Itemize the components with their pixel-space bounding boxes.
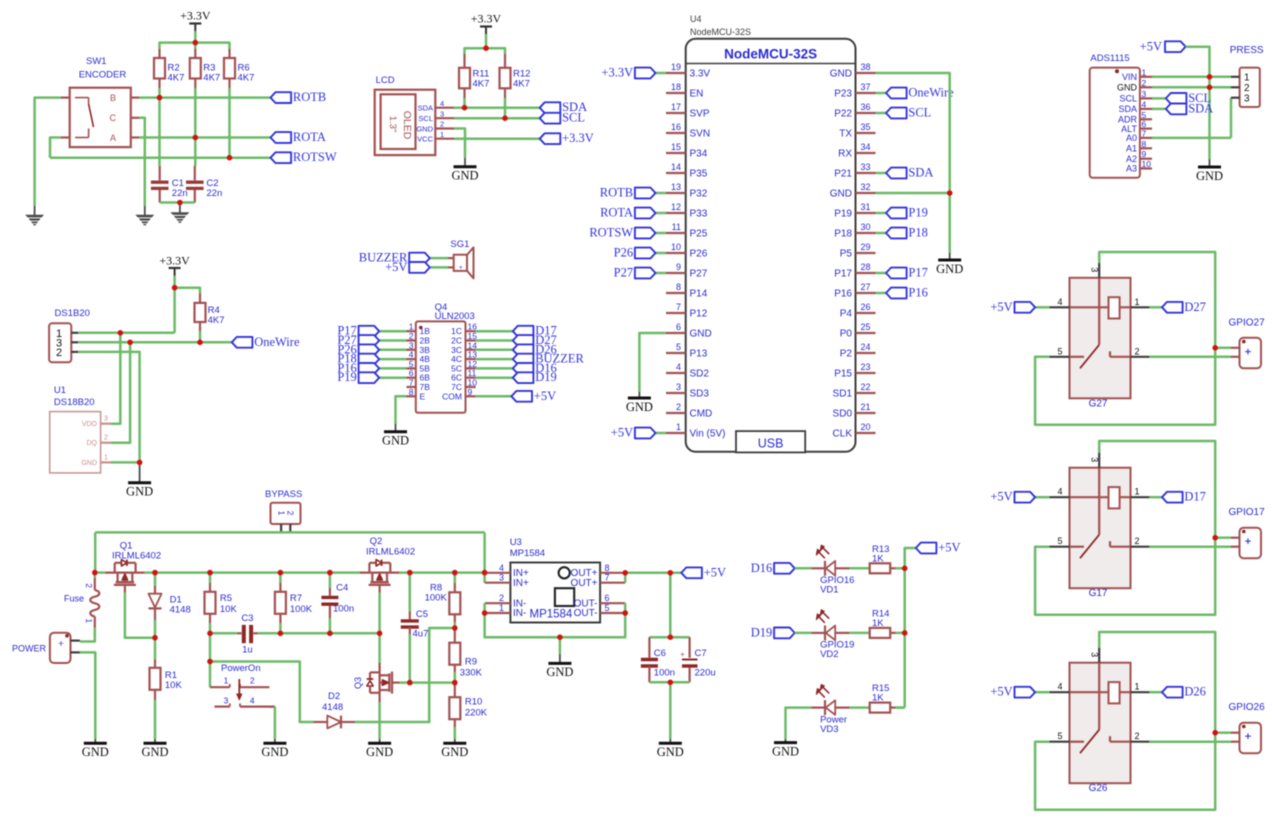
- svg-text:24: 24: [861, 342, 871, 352]
- wire G27 sense tap: [1215, 347, 1231, 350]
- relay G27 pin 1: [1131, 306, 1150, 308]
- U4 left pin 4 SD2: [666, 372, 686, 374]
- svg-text:+5V: +5V: [938, 541, 960, 555]
- svg-text:+5V: +5V: [990, 490, 1012, 504]
- svg-text:ROTSW: ROTSW: [589, 226, 633, 240]
- svg-text:A2: A2: [1126, 154, 1137, 164]
- U1 pin 1 GND: [101, 461, 111, 463]
- svg-text:GND: GND: [772, 744, 799, 758]
- U4 left pin 14 P35: [666, 172, 686, 174]
- flag +5V (G27): [1035, 306, 1049, 309]
- svg-text:37: 37: [861, 82, 871, 92]
- svg-text:U3: U3: [510, 537, 522, 548]
- U4 left pin 16 SVN: [666, 132, 686, 134]
- wire D1 to R1: [154, 620, 157, 638]
- junction: [278, 570, 284, 576]
- svg-text:VD3: VD3: [820, 724, 838, 735]
- ULN2003 pin 15 2C: [466, 339, 476, 341]
- ground (ULN2003): [395, 424, 397, 431]
- U4 left pin 8 P14: [666, 292, 686, 294]
- resistor R14 1K: [850, 632, 870, 635]
- resistor R6: [228, 49, 230, 58]
- wire fuse to main rail: [94, 573, 97, 578]
- flag D19 (ULN out): [476, 376, 513, 379]
- svg-text:C7: C7: [695, 648, 707, 659]
- svg-text:SDA: SDA: [1118, 104, 1137, 114]
- svg-text:DQ: DQ: [87, 440, 98, 447]
- svg-text:R9: R9: [465, 657, 477, 668]
- svg-text:7: 7: [676, 302, 681, 312]
- junction: [327, 570, 333, 576]
- ADS1115 pin 1 VIN: [1140, 76, 1152, 78]
- U4 right pin 27 P16: [856, 292, 876, 294]
- junction: [902, 630, 908, 636]
- svg-text:330K: 330K: [460, 668, 483, 679]
- svg-text:SW1: SW1: [86, 56, 107, 67]
- svg-text:MP1584: MP1584: [530, 609, 573, 621]
- svg-text:4: 4: [1057, 487, 1062, 497]
- flag SCL (ADS): [1152, 97, 1166, 100]
- ADS1115 pin 3 SCL: [1140, 97, 1152, 99]
- svg-text:U1: U1: [54, 385, 66, 396]
- junction: [452, 570, 458, 576]
- ADS1115 pin 7 A0: [1140, 137, 1152, 139]
- U4 right pin 22 SD1: [856, 392, 876, 394]
- LED VD2 GPIO19: [812, 632, 826, 634]
- svg-text:GND: GND: [936, 262, 963, 276]
- svg-text:4: 4: [499, 563, 504, 573]
- flag +3.3V (U4 pin 19): [656, 72, 667, 75]
- diode D1 4148: [154, 573, 157, 586]
- U4 right pin 37 P23: [856, 92, 876, 94]
- U4 left pin 12 P33: [666, 212, 686, 214]
- flag D26: [1149, 691, 1162, 694]
- svg-text:+5V: +5V: [385, 260, 407, 274]
- svg-text:1: 1: [1134, 297, 1139, 307]
- svg-text:SD0: SD0: [833, 409, 853, 420]
- junction: [668, 634, 674, 640]
- svg-text:P4: P4: [840, 309, 853, 320]
- svg-text:DS18B20: DS18B20: [54, 397, 95, 408]
- ULN2003 pin 1 1B: [407, 330, 416, 332]
- svg-text:G26: G26: [1089, 783, 1108, 794]
- wire Q1 gate: [125, 593, 155, 638]
- svg-text:VDO: VDO: [82, 421, 98, 428]
- svg-text:GND: GND: [451, 169, 478, 183]
- resistor R15 1K: [850, 706, 870, 709]
- svg-text:11: 11: [672, 222, 681, 232]
- ULN2003 pin 13 4C: [466, 358, 476, 360]
- U4 right pin 21 SD0: [856, 412, 876, 414]
- junction: [172, 285, 178, 291]
- wire SDA net: [454, 106, 540, 109]
- ground earth (SW1 C): [144, 206, 146, 216]
- svg-text:RX: RX: [838, 149, 852, 160]
- svg-text:LCD: LCD: [376, 75, 395, 86]
- svg-text:P16: P16: [908, 286, 927, 300]
- svg-text:8: 8: [1142, 139, 1147, 149]
- ground (LCD): [464, 158, 466, 166]
- U4 left pin 10 P26: [666, 252, 686, 254]
- junction: [193, 40, 199, 46]
- svg-text:9: 9: [468, 387, 473, 397]
- flag ROTA: [271, 132, 292, 143]
- ground (PowerOn): [274, 739, 276, 743]
- svg-text:18: 18: [671, 82, 681, 92]
- svg-text:26: 26: [861, 302, 871, 312]
- svg-text:+: +: [459, 265, 463, 272]
- svg-text:3.3V: 3.3V: [690, 69, 711, 80]
- svg-text:+: +: [1245, 536, 1251, 548]
- svg-text:ROTA: ROTA: [293, 130, 326, 144]
- svg-text:21: 21: [861, 402, 871, 412]
- relay G17 pin 4: [1049, 496, 1069, 498]
- junction: [483, 45, 489, 51]
- junction: [407, 570, 413, 576]
- svg-text:P32: P32: [690, 189, 708, 200]
- U4 left pin 1 Vin (5V): [666, 432, 686, 434]
- flag +5V (SG1): [430, 266, 448, 269]
- flag D17 (ULN out): [476, 330, 513, 333]
- capacitor C5 4u7: [409, 573, 412, 612]
- svg-text:4: 4: [250, 695, 255, 705]
- svg-text:4: 4: [676, 362, 681, 372]
- junction: [462, 105, 468, 111]
- svg-text:9: 9: [676, 262, 681, 272]
- wire DQ column: [111, 342, 130, 442]
- svg-text:6: 6: [605, 593, 610, 603]
- wire LCD GND: [454, 129, 465, 159]
- wire VDO column: [111, 333, 120, 424]
- junction: [557, 634, 563, 640]
- wire R11/R12 top rail: [465, 48, 506, 54]
- wire U1 GND row: [111, 461, 140, 464]
- U4 left pin 5 P13: [666, 352, 686, 354]
- wire G26 loop: [1035, 632, 1215, 810]
- svg-text:5: 5: [1057, 536, 1062, 546]
- U3 pin 6 OUT-: [600, 602, 625, 604]
- junction: [137, 460, 143, 466]
- wire SW1 B-left to ground: [35, 98, 61, 206]
- flag D17: [1149, 496, 1162, 499]
- wire G17 loop: [1035, 441, 1215, 615]
- flag SCL (U4 pin 36): [876, 112, 887, 115]
- ground (Q3): [379, 739, 381, 743]
- ULN2003 pin 10 7C: [466, 386, 476, 388]
- flag BUZZER (SG1): [430, 257, 448, 260]
- svg-text:P34: P34: [690, 149, 708, 160]
- U4 right pin 33 P21: [856, 172, 876, 174]
- svg-text:34: 34: [861, 142, 871, 152]
- svg-text:ROTA: ROTA: [600, 206, 633, 220]
- wire R10 to ground: [454, 727, 457, 739]
- relay G26 pin 4: [1049, 691, 1069, 693]
- svg-text:P18: P18: [834, 229, 852, 240]
- svg-text:12: 12: [671, 202, 681, 212]
- svg-text:SVP: SVP: [690, 109, 710, 120]
- svg-text:GND: GND: [1196, 169, 1223, 183]
- USB connector box: [736, 431, 805, 452]
- svg-text:C: C: [110, 113, 117, 123]
- svg-text:31: 31: [861, 202, 871, 212]
- flag P27 (U4 pin 9): [656, 272, 667, 275]
- svg-text:P19: P19: [908, 206, 927, 220]
- wire A0 to PRESS3: [1152, 137, 1231, 140]
- wire Q3 gate row: [400, 681, 455, 684]
- ground (POWER): [94, 739, 96, 743]
- svg-text:38: 38: [861, 62, 871, 72]
- svg-text:+5V: +5V: [990, 300, 1012, 314]
- svg-text:A3: A3: [1126, 164, 1137, 174]
- svg-text:P12: P12: [690, 309, 708, 320]
- svg-text:+3.3V: +3.3V: [159, 253, 190, 267]
- svg-text:4148: 4148: [170, 605, 191, 616]
- svg-text:6: 6: [676, 322, 681, 332]
- net ROTA wire: [139, 136, 271, 139]
- flag SDA: [540, 102, 561, 113]
- svg-text:E: E: [420, 391, 426, 401]
- flag P17 (U4 pin 28): [876, 272, 887, 275]
- ADS1115 pin 10 A3: [1140, 167, 1152, 169]
- svg-text:+5V: +5V: [1140, 39, 1162, 53]
- svg-text:19: 19: [671, 62, 681, 72]
- svg-text:Vin (5V): Vin (5V): [690, 429, 726, 440]
- U1 pin 3 VDO: [101, 423, 111, 425]
- svg-text:OneWire: OneWire: [254, 335, 300, 349]
- svg-text:20: 20: [861, 422, 871, 432]
- ADS1115 pin 4 SDA: [1140, 108, 1152, 110]
- svg-text:4K7: 4K7: [168, 73, 185, 84]
- svg-text:P16: P16: [834, 289, 852, 300]
- U4 right pin 24 P2: [856, 352, 876, 354]
- svg-text:BYPASS: BYPASS: [265, 489, 302, 500]
- U4 right pin 25 P0: [856, 332, 876, 334]
- wire R3 column to C2: [194, 88, 197, 138]
- resistor R12: [504, 54, 506, 68]
- svg-text:4K7: 4K7: [513, 79, 530, 90]
- U4 right pin 36 P22: [856, 112, 876, 114]
- svg-text:GND: GND: [81, 460, 97, 467]
- ULN2003 pin 14 3C: [466, 349, 476, 351]
- ULN2003 pin 8 E: [407, 395, 416, 397]
- svg-text:29: 29: [861, 242, 871, 252]
- svg-text:IN+: IN+: [513, 578, 529, 589]
- U3 pin 2 IN-: [485, 602, 511, 604]
- svg-text:Fuse: Fuse: [64, 594, 84, 604]
- svg-text:27: 27: [861, 282, 871, 292]
- wire G27 pin2 to GPIO27: [1149, 356, 1231, 359]
- svg-text:SCL: SCL: [908, 106, 931, 120]
- flag P17 (ULN in): [379, 330, 406, 333]
- ADS1115 pin 6 ALT: [1140, 128, 1152, 130]
- ground (U1): [139, 462, 141, 482]
- svg-text:P26: P26: [690, 249, 708, 260]
- svg-text:TX: TX: [839, 129, 852, 140]
- svg-text:5: 5: [1057, 731, 1062, 741]
- svg-text:IN-: IN-: [513, 608, 526, 619]
- svg-text:1: 1: [276, 511, 286, 516]
- junction: [482, 570, 488, 576]
- svg-text:+5V: +5V: [990, 685, 1012, 699]
- U3 pin 3 IN+: [485, 582, 511, 584]
- ULN2003 pin 4 4B: [407, 358, 416, 360]
- svg-text:D2: D2: [328, 691, 340, 702]
- svg-text:1: 1: [84, 618, 94, 623]
- flag D26 (ULN out): [476, 349, 513, 352]
- svg-text:P2: P2: [840, 349, 853, 360]
- svg-text:4: 4: [1057, 297, 1062, 307]
- wire G27 loop: [1035, 252, 1215, 425]
- flag BUZZER (ULN out): [476, 358, 513, 361]
- flag +5V (G26): [1035, 691, 1049, 694]
- flag SCL: [540, 113, 561, 124]
- junction: [197, 340, 203, 346]
- svg-text:B: B: [110, 93, 116, 103]
- resistor R13 1K: [850, 567, 870, 570]
- ADS1115 pin 9 A2: [1140, 158, 1152, 160]
- svg-text:SD2: SD2: [690, 369, 710, 380]
- junction: [152, 570, 158, 576]
- flag ROTSW (U4 pin 11): [656, 232, 667, 235]
- svg-text:+: +: [58, 638, 64, 650]
- svg-text:EN: EN: [690, 89, 704, 100]
- U4 left pin 3 SD3: [666, 392, 686, 394]
- svg-text:P22: P22: [834, 109, 852, 120]
- svg-text:2: 2: [1134, 346, 1139, 356]
- svg-text:VIN: VIN: [1122, 72, 1137, 82]
- ULN2003 pin 6 6B: [407, 377, 416, 379]
- svg-text:P26: P26: [614, 246, 633, 260]
- ADS1115 pin 8 A1: [1140, 147, 1152, 149]
- svg-text:GND: GND: [416, 124, 433, 133]
- svg-text:DS1B20: DS1B20: [55, 308, 90, 319]
- svg-text:Q2: Q2: [370, 536, 383, 547]
- flag SDA (ADS): [1152, 108, 1166, 111]
- svg-text:OneWire: OneWire: [908, 86, 954, 100]
- svg-text:5: 5: [1057, 346, 1062, 356]
- wire LED rail: [903, 568, 906, 707]
- svg-text:Q3: Q3: [353, 677, 363, 689]
- svg-text:GND: GND: [141, 745, 168, 759]
- wire C1/C2 to ground: [160, 201, 195, 204]
- relay G27 pin 3: [1098, 263, 1100, 278]
- svg-text:SDA: SDA: [908, 166, 933, 180]
- relay G26 pin 1: [1131, 691, 1150, 693]
- svg-text:100n: 100n: [333, 604, 354, 615]
- svg-text:PRESS: PRESS: [1230, 45, 1264, 56]
- svg-text:ADS1115: ADS1115: [1090, 53, 1129, 64]
- junction: [127, 340, 133, 346]
- svg-text:36: 36: [861, 102, 871, 112]
- svg-text:VD2: VD2: [820, 649, 838, 660]
- svg-text:MP1584: MP1584: [510, 548, 545, 559]
- svg-text:P33: P33: [690, 209, 708, 220]
- ADS1115 pin 2 GND: [1140, 86, 1152, 88]
- svg-text:+5V: +5V: [611, 426, 633, 440]
- U4 right pin 23 P15: [856, 372, 876, 374]
- ULN2003 pin 2 2B: [407, 339, 416, 341]
- svg-text:1: 1: [224, 675, 229, 685]
- svg-text:OUT+: OUT+: [571, 578, 598, 589]
- wire U4 pin6 GND: [639, 333, 666, 392]
- LED VD3 Power: [812, 706, 826, 708]
- U4 left pin 18 EN: [666, 92, 686, 94]
- wire C3 to R7: [258, 632, 380, 635]
- flag D16 (ULN out): [476, 367, 513, 370]
- flag +5V (U4 pin 1): [656, 432, 667, 435]
- wire +3.3V to R4: [175, 288, 200, 294]
- U4 left pin 6 GND: [666, 332, 686, 334]
- svg-text:P17: P17: [908, 266, 927, 280]
- svg-text:VCC: VCC: [417, 135, 433, 144]
- svg-text:1K: 1K: [872, 553, 884, 564]
- svg-text:1: 1: [104, 454, 108, 461]
- svg-text:25: 25: [861, 322, 871, 332]
- svg-text:SCL: SCL: [418, 114, 433, 123]
- flag P18 (ULN in): [379, 358, 406, 361]
- svg-text:1: 1: [1142, 67, 1147, 77]
- svg-text:GND: GND: [382, 434, 409, 448]
- svg-text:GPIO17: GPIO17: [1229, 507, 1266, 518]
- capacitor C7 220u: [688, 637, 690, 658]
- U4 right pin 30 P18: [856, 232, 876, 234]
- junction: [92, 570, 98, 576]
- svg-text:+5V: +5V: [534, 389, 556, 403]
- junction: [327, 631, 333, 637]
- svg-text:10K: 10K: [165, 680, 183, 691]
- wire G17 pin2 to GPIO17: [1149, 545, 1231, 548]
- svg-text:4K7: 4K7: [473, 79, 490, 90]
- flag P19 (ULN in): [379, 376, 406, 379]
- flag D16: [774, 563, 795, 574]
- svg-text:OUT-: OUT-: [574, 608, 598, 619]
- flag D27 (ULN out): [476, 339, 513, 342]
- wire G26 sense tap: [1215, 731, 1231, 734]
- svg-text:ROTSW: ROTSW: [293, 150, 337, 164]
- svg-text:+5V: +5V: [704, 565, 726, 579]
- svg-text:1.3": 1.3": [387, 116, 398, 133]
- wire main power rail: [95, 571, 106, 574]
- junction: [482, 610, 488, 616]
- svg-text:P27: P27: [614, 266, 633, 280]
- U1 pin 2 DQ: [101, 442, 111, 444]
- svg-text:2: 2: [440, 120, 444, 129]
- junction: [1212, 535, 1218, 541]
- resistor R1: [154, 638, 157, 660]
- U4 left pin 19 3.3V: [666, 72, 686, 74]
- svg-text:220K: 220K: [465, 708, 488, 719]
- svg-text:15: 15: [671, 142, 681, 152]
- flag P26 (ULN in): [379, 349, 406, 352]
- flag P18 (U4 pin 30): [876, 232, 887, 235]
- wire G17 sense tap: [1215, 536, 1231, 539]
- wire SW1 C to ground: [139, 118, 145, 206]
- svg-text:GND: GND: [82, 745, 109, 759]
- svg-text:100n: 100n: [654, 668, 675, 679]
- svg-text:8: 8: [409, 387, 414, 397]
- svg-text:35: 35: [861, 122, 871, 132]
- wire SW1 A to ROTSW net: [50, 138, 61, 158]
- svg-text:1: 1: [1134, 682, 1139, 692]
- wire VD3 to ground: [786, 708, 812, 739]
- svg-text:+3.3V: +3.3V: [471, 12, 502, 26]
- wire Q3 source to ground: [378, 702, 381, 739]
- ground (U4 right): [949, 253, 951, 259]
- relay G17 pin 3: [1098, 453, 1100, 468]
- resistor R9: [454, 628, 456, 643]
- svg-text:GND: GND: [1117, 83, 1138, 93]
- net OneWire wire: [78, 341, 232, 344]
